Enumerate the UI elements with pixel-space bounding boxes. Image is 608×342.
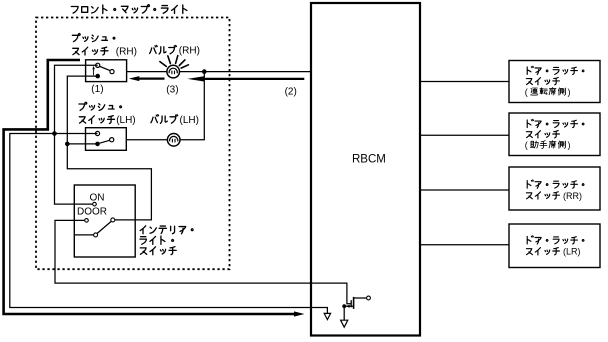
svg-text:DOOR: DOOR [77, 207, 107, 218]
push switch RH actuation arrow [93, 69, 95, 76]
node junction with LH bottom wire [65, 142, 70, 147]
push switch RH box [86, 60, 127, 82]
svg-text:(1): (1) [91, 84, 103, 95]
interior switch ON contact [93, 202, 97, 206]
door latch switch (driver side) box [509, 61, 600, 103]
transistor Q1 drain stub to output [354, 297, 367, 299]
push switch RH pushed contact (filled) [95, 74, 100, 79]
svg-text:(3): (3) [166, 84, 178, 95]
door latch switch (RR) box [509, 167, 600, 210]
svg-text:(: ( [525, 87, 528, 97]
wire source to ground [343, 306, 345, 320]
wire junction to LH pushed contact [67, 143, 97, 145]
wire RBCM to door latch switch (driver) [420, 81, 509, 83]
svg-text:(RR): (RR) [563, 191, 582, 201]
wire RBCM pin to bulbs (lamp feed) [114, 71, 311, 73]
dashed enclosure: front map light unit [36, 18, 230, 270]
door latch switch (passenger side) box [509, 113, 600, 156]
wire junction down to LH bulb [114, 72, 205, 140]
ground arrow inside RBCM (lamp return) [324, 313, 330, 319]
wire RH switch top contact to ON contact (vertical bus) [55, 65, 98, 204]
transistor Q1 channel bar [353, 297, 355, 309]
label push switch (LH) [79, 102, 122, 123]
push switch LH closed contact (filled) [95, 142, 100, 147]
push switch RH lever [99, 66, 111, 71]
push switch LH top contact [95, 131, 99, 135]
label bulb (LH) [151, 115, 178, 124]
push switch LH output contact [110, 138, 114, 142]
transistor Q1 gate bar [350, 300, 352, 307]
node junction bulbs feed [202, 69, 207, 74]
push switch RH output contact [110, 70, 114, 74]
label push switch (RH) [72, 34, 115, 55]
interior switch DOOR contact [85, 219, 89, 223]
bulb LH [167, 134, 180, 147]
wire LH top contact to RBCM internal ground (outer loop) [10, 134, 328, 314]
bulb RH (lit) rays [160, 56, 189, 69]
svg-text:RBCM: RBCM [352, 153, 386, 165]
thick current path from switch around to RBCM [4, 60, 296, 314]
svg-text:): ) [568, 140, 571, 150]
push switch LH lever [100, 140, 110, 143]
door latch switch (LR) box [509, 224, 600, 268]
svg-text:(LR): (LR) [563, 247, 581, 257]
label interior light switch [140, 226, 193, 255]
wire DOOR contact to RBCM transistor gate [55, 220, 351, 303]
node junction with LH top wire [52, 131, 57, 136]
wire RH switch pushed contact to interior switch common [67, 76, 151, 220]
wire RBCM to door latch switch (passenger) [420, 134, 509, 136]
flow arrow (2) RBCM to bulbs [202, 78, 304, 80]
svg-text:(2): (2) [285, 86, 297, 97]
interior switch OFF stub wire [74, 234, 93, 236]
wire RBCM to door latch switch (LR) [420, 244, 509, 246]
wire RBCM to door latch switch (RR) [420, 189, 509, 191]
interior switch lever [97, 221, 111, 233]
node transistor source [342, 304, 346, 308]
interior switch lever end contact [94, 233, 98, 237]
svg-text:(LH): (LH) [180, 115, 199, 126]
label bulb (RH) [150, 45, 177, 54]
interior switch common contact [111, 218, 115, 222]
label: front map light (title) [71, 5, 187, 14]
interior light switch box [74, 185, 135, 257]
bulb RH [167, 65, 180, 78]
transistor Q1 output circle [367, 296, 371, 300]
svg-text:): ) [568, 87, 571, 97]
RBCM module box [311, 3, 420, 336]
svg-text:ON: ON [90, 192, 105, 203]
svg-text:(LH): (LH) [116, 115, 135, 126]
push switch RH top contact [96, 63, 100, 67]
svg-text:(RH): (RH) [179, 46, 200, 57]
flow arrow (3) bulb to switch [138, 77, 165, 79]
ground arrow transistor source [341, 320, 348, 327]
push switch LH box [86, 128, 127, 151]
transistor Q1 source stub [344, 305, 353, 307]
svg-text:(: ( [525, 140, 528, 150]
svg-text:(RH): (RH) [116, 46, 137, 57]
